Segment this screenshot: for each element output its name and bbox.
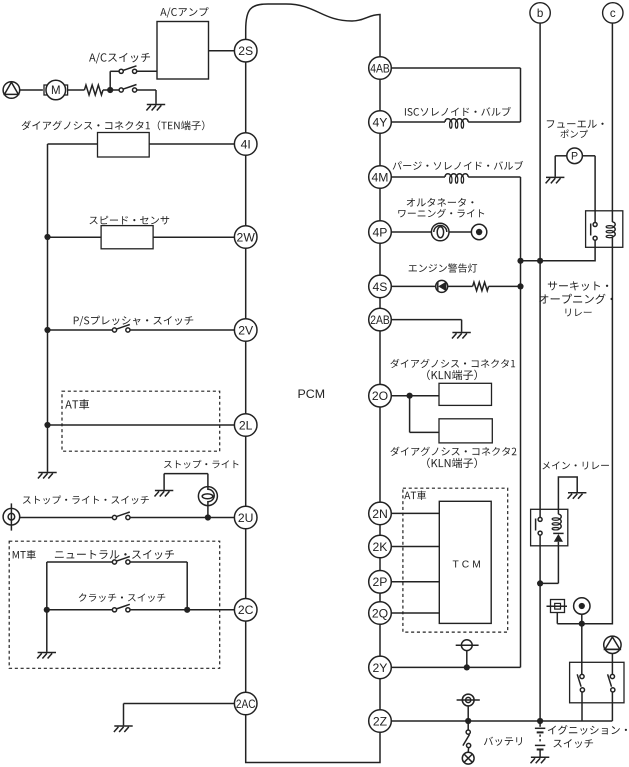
ground [37,653,56,659]
wire 2P to TCM [391,581,439,583]
wire [46,562,48,652]
resistor R2 (warning light series) [473,282,489,291]
wire [207,474,209,487]
wire neutral switch row [47,561,113,563]
wire [489,285,521,287]
diode D2 (in main relay) [553,533,563,541]
wire b line lower [539,535,541,721]
wire [540,582,558,584]
relay K1 contacts [591,223,597,241]
wire PCM left bus with page-break squiggle at top [246,4,380,763]
svg-text:2W: 2W [237,230,256,244]
PCM port 2Y [369,656,392,679]
wire [611,692,613,722]
svg-text:P: P [571,151,578,163]
motor M1 (A/C compressor magnet clutch) [44,80,68,100]
speed sensor box [101,226,153,249]
svg-text:2Z: 2Z [373,714,388,728]
switch ignition contact 1 [577,674,584,692]
wire 2Z row [391,720,612,722]
svg-text:2S: 2S [238,44,253,58]
wire PCM right bus [379,57,381,733]
wire [124,703,235,705]
wire long vertical (purge/4S/2Y node) [520,177,522,667]
label AT車 [404,491,426,500]
relay K2 contacts [536,517,543,535]
svg-text:2Y: 2Y [373,661,388,675]
PCM port 2W [234,226,257,249]
wire [109,71,111,90]
PCM port 2P [369,571,392,594]
wire 2Q to TCM [391,612,439,614]
junction dot [464,664,470,670]
svg-text:b: b [537,7,543,20]
label ストップ・ライト・スイッチ [23,495,149,504]
junction dot [184,607,190,613]
wire [123,704,125,726]
connector box: diagnosis connector 2 (KLN terminal) [439,419,492,443]
label A/Cスイッチ [89,53,150,64]
PCM port 4S [369,275,392,298]
ground [452,333,471,339]
wire [448,285,473,287]
connector symbol (circle with dot) [574,598,590,614]
svg-text:2O: 2O [372,389,388,403]
label P/Sプレッシャ・スイッチ [74,316,193,327]
label メイン・リレー [542,461,609,469]
label リレー [565,309,591,317]
wire [48,143,98,145]
page connector symbol (double circle) at left edge [3,503,20,530]
A/C amplifier box U1 [157,22,209,80]
wire [130,609,234,611]
wire [557,542,559,584]
junction dot [537,718,543,724]
junction dot [517,258,523,264]
wire [137,89,156,91]
wire [449,231,471,233]
label スピード・センサ [90,216,170,225]
wire [520,68,522,122]
wire [48,424,235,426]
PCM port 4Y [369,111,392,134]
wire 2Y row [391,666,520,668]
label スイッチ [553,739,593,748]
wire [554,156,556,177]
TCM box U2 [439,501,491,623]
wire [48,236,102,238]
connector symbol (circle with dot) [471,224,486,239]
junction dot [465,718,471,724]
inductor: main relay coil [552,514,561,530]
label AT車 [65,399,89,409]
PCM port 2S [234,39,257,62]
label バッテリ [484,737,522,746]
wire [461,320,463,332]
wire [391,231,431,233]
junction dot [407,393,413,399]
wire [103,89,119,91]
wire 2K to TCM [391,546,439,548]
PCM port 2Z [369,710,392,733]
wire [130,329,234,331]
label ストップ・ライト [164,460,238,469]
ground [146,105,165,111]
ground [568,493,587,499]
wire [581,692,583,722]
label イグニッション・ [548,725,627,735]
relay K2: main relay box [531,509,568,546]
page connector symbol (circled triangle) c2 [604,636,621,653]
svg-text:2P: 2P [373,575,388,589]
switch A/C switch (upper contact) [119,66,137,74]
wire [130,561,187,563]
wire [581,614,583,624]
svg-text:2AC: 2AC [236,697,256,711]
junction dot [537,580,543,586]
wire [409,396,411,433]
label エンジン警告灯 [409,263,478,272]
svg-text:4Y: 4Y [373,115,388,129]
connector box: diagnosis connector 1 (TEN terminal) [98,133,150,158]
PCM port 2Q [369,602,392,625]
wire main relay coil to ground [558,477,577,509]
wire [468,176,520,178]
label ダイアグノシス・コネクタ1 [390,359,515,368]
wire [163,474,165,490]
switch neutral switch [112,557,130,565]
svg-text:4AB: 4AB [370,61,390,75]
wire [391,285,436,287]
wire [467,721,469,730]
inductor L1: ISC solenoid valve coil [445,119,468,129]
PCM port 2L [234,414,257,437]
label ダイアグノシス・コネクタ1（TEN端子） [22,120,205,130]
wire [207,506,209,517]
wire b line upper [539,23,541,517]
svg-text:2C: 2C [238,603,254,617]
PCM port 2C [234,599,257,622]
node b (page connector circle) [530,3,550,23]
wire [48,329,113,331]
label サーキット・ [548,281,608,290]
label ダイアグノシス・コネクタ2 [390,447,516,456]
inductor: circuit opening relay coil [606,222,615,238]
wire [467,706,469,721]
wire [68,89,85,91]
switch P/S pressure switch [112,325,130,333]
svg-text:2U: 2U [238,511,254,525]
label MT車 [13,550,36,559]
svg-text:2N: 2N [372,507,388,521]
wire [137,70,157,72]
wire [164,473,208,475]
PCM port 2V [234,319,257,342]
relay K1: circuit opening relay box [586,211,623,248]
PCM port 2O [369,384,392,407]
label クラッチ・スイッチ [79,593,166,602]
node c (page connector circle) [603,3,623,23]
page connector symbol (circled triangle) A [3,82,20,99]
wire [209,50,235,52]
PCM port 2U [234,506,257,529]
junction dot [44,422,50,428]
wire [611,654,613,675]
svg-text:M: M [51,85,61,97]
PCM port 4AB [369,57,392,80]
dashed box AT vehicles (TCM) [403,488,508,632]
wire [410,431,439,433]
fuel pump P1 [567,148,583,164]
svg-text:2Q: 2Q [372,606,388,620]
label オルタネータ・ [407,198,474,207]
wire [468,121,520,123]
wire [582,155,595,157]
joint connector symbol (square in square) [547,600,568,613]
label フューエル・ [547,120,604,128]
wire [581,624,583,675]
ground [38,473,57,479]
wire [555,155,567,157]
svg-text:2V: 2V [238,323,254,337]
label （KLN端子） [427,370,477,380]
PCM port 4M [369,166,392,189]
wire [19,89,43,91]
resistor (blower) [84,85,103,95]
wire [155,90,157,104]
wire [557,509,559,514]
lamp: alternator warning light [431,223,449,241]
svg-text:4I: 4I [241,137,251,151]
junction dot [44,327,50,333]
lamp: test lamp (circled X) [462,752,474,764]
wire [110,70,119,72]
wire left feeder to ground [47,144,49,472]
wire clutch switch row [47,609,113,611]
ground [155,491,174,497]
svg-text:c: c [610,7,616,20]
wire [391,319,461,321]
inductor L2: purge solenoid valve coil [445,174,468,184]
svg-text:4P: 4P [373,225,388,239]
switch clutch switch [112,604,130,612]
PCM port 2AC [234,692,257,715]
switch A/C switch (lower contact) [119,85,137,93]
label ニュートラル・スイッチ [55,550,174,559]
LED D1: engine warning light [436,280,448,292]
wire c line upper [611,23,613,222]
wire [153,236,234,238]
junction dot [44,607,50,613]
dashed box MT vehicles [9,541,220,668]
wire [20,517,113,519]
label オープニング・ [539,294,613,304]
label パージ・ソレノイド・バルブ [393,161,524,170]
wire [391,121,445,123]
wire relay output to node [521,240,596,261]
ignition switch box S1 [570,662,624,703]
junction dot [107,87,113,93]
connector symbol (circle crossed by line) [456,640,479,651]
svg-text:2L: 2L [239,418,253,432]
label A/Cアンプ [160,7,208,18]
svg-text:4S: 4S [373,280,388,294]
wire [391,176,445,178]
wire [186,562,188,610]
junction dot [579,621,585,627]
svg-text:4M: 4M [372,170,389,184]
battery BAT1 [535,721,545,757]
wire [467,748,469,753]
svg-text:PCM: PCM [298,387,326,401]
PCM port 2AB [369,308,392,331]
junction dot [517,283,523,289]
switch stop light switch [112,512,130,520]
ground [546,177,565,183]
label （KLN端子） [427,458,477,468]
dashed box AT vehicles [62,391,220,451]
connector symbol (double circle crossed by line) [457,694,480,706]
ground [531,757,550,763]
junction dot [205,514,211,520]
wire 2N to TCM [391,512,439,514]
PCM port 2K [369,535,392,558]
wire 4AB feed [391,67,520,69]
wire [594,156,596,223]
PCM port 4P [369,221,392,244]
PCM port 2N [369,502,392,525]
label ISCソレノイド・バルブ [405,107,511,116]
junction dot [44,234,50,240]
wire [556,613,558,624]
PCM port 4I [234,133,257,156]
wire [391,395,439,397]
label ワーニング・ライト [398,209,484,218]
svg-text:2AB: 2AB [370,313,390,327]
wire c line lower [557,237,612,624]
switch test switch (below 2Z) [463,730,471,748]
connector box: diagnosis connector 1 (KLN terminal) [439,383,492,405]
label ポンプ [560,130,587,138]
lamp: stop light [198,486,217,506]
wire [149,143,234,145]
wire [466,651,468,668]
svg-text:TCM: TCM [453,559,484,570]
ground [114,726,133,732]
wire [130,517,234,519]
switch ignition contact 2 [608,674,615,692]
junction dot [537,258,543,264]
svg-text:2K: 2K [373,540,388,554]
